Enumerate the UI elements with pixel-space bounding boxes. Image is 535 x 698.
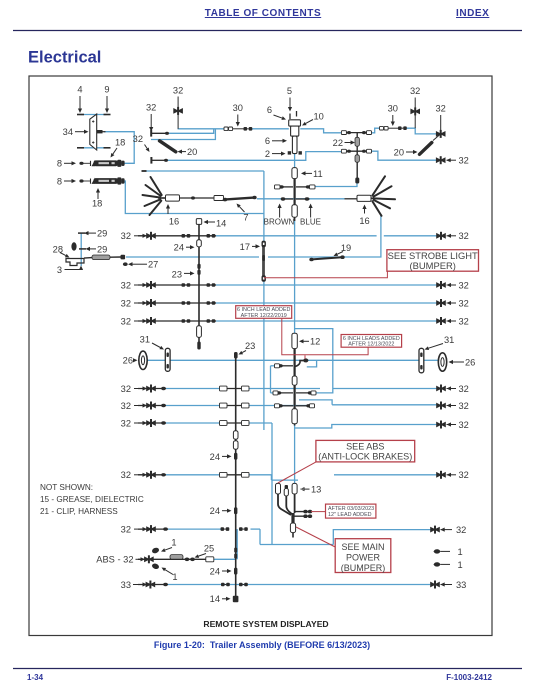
svg-text:REMOTE SYSTEM DISPLAYED: REMOTE SYSTEM DISPLAYED [203,619,328,629]
svg-text:20: 20 [394,147,404,157]
right plug 1 upper [434,549,440,553]
svg-text:13: 13 [311,485,321,495]
svg-text:17: 17 [240,242,250,252]
svg-text:32: 32 [121,470,131,480]
svg-text:33: 33 [456,580,466,590]
red leader 2023 box [311,511,326,513]
svg-text:32: 32 [146,103,156,113]
wire row 423 segments [166,422,220,424]
svg-text:32: 32 [121,280,131,290]
svg-text:AFTER 12/22/2019: AFTER 12/22/2019 [241,313,287,319]
trunk bottom barrel [197,326,202,338]
svg-text:2: 2 [265,149,270,159]
wire bottom link [259,529,261,544]
wire branch 11 to chain 22 [312,184,358,187]
red leader strobe [264,271,388,278]
center trunk upper [294,179,296,205]
svg-text:25: 25 [204,543,214,553]
wire connector 8-2 down to bus [120,181,264,214]
svg-text:27: 27 [148,260,158,270]
svg-text:32: 32 [410,86,420,96]
svg-text:32: 32 [121,316,131,326]
wire row 257 [126,216,381,258]
red note box see strobe light [387,250,479,272]
svg-text:32: 32 [459,280,469,290]
svg-text:9: 9 [104,85,109,95]
svg-text:1: 1 [171,537,176,547]
fan 16 right [372,176,385,195]
wire bus y171 [146,170,264,172]
svg-text:NOT SHOWN:: NOT SHOWN: [40,483,93,492]
diagram frame [29,76,492,636]
wire center harness stubs [270,366,272,393]
svg-text:32: 32 [121,401,131,411]
svg-text:POWER: POWER [346,552,381,562]
svg-text:AFTER 12/13/2022: AFTER 12/13/2022 [348,342,394,348]
svg-text:18: 18 [115,138,125,148]
svg-text:SEE ABS: SEE ABS [346,442,384,452]
wire row 584 [168,584,431,586]
svg-text:10: 10 [314,112,324,122]
svg-text:F-1003-2412: F-1003-2412 [446,673,492,682]
wire row 285 [216,284,438,286]
svg-text:32: 32 [459,231,469,241]
footer rule [13,668,522,670]
svg-text:1-34: 1-34 [27,673,44,682]
wire abs row blue [213,558,235,560]
svg-text:32: 32 [436,104,446,114]
wire to splice X3 [372,151,438,160]
beads on trunk above abs row [234,548,237,553]
ring terminal 26 right [438,353,446,371]
svg-text:SEE MAIN: SEE MAIN [341,542,384,552]
barrel center lower [292,205,297,217]
svg-text:18: 18 [92,199,102,209]
wire main top bus A [178,128,224,130]
red note box see abs [316,440,415,462]
svg-text:12: 12 [310,337,320,347]
wire staircase right of center harness [295,329,333,393]
assembly 13 main power leads [276,483,281,494]
svg-text:12" LEAD ADDED: 12" LEAD ADDED [328,512,372,518]
red note box 6 inch leads added 2022 [341,335,402,348]
wire bus C [151,129,215,140]
svg-text:32: 32 [133,134,143,144]
wire bus D lower [168,152,342,161]
wire row 529 left [168,528,221,530]
svg-text:BROWN: BROWN [264,217,295,226]
svg-text:6: 6 [265,136,270,146]
red stub to harness [304,355,306,359]
wire row 388 segments [166,388,220,390]
row 236 left black [138,235,216,237]
svg-text:20: 20 [187,147,197,157]
12 inch leads [294,511,311,513]
svg-text:29: 29 [97,229,107,239]
center harness 12 [292,333,297,348]
right splice rows upper [436,233,440,239]
svg-text:24: 24 [174,243,184,253]
svg-text:34: 34 [63,127,73,137]
rows 388 405 423 left black parts [146,386,150,392]
svg-text:32: 32 [459,298,469,308]
wire row 474 [166,474,220,476]
svg-text:TABLE OF CONTENTS: TABLE OF CONTENTS [205,8,321,19]
svg-text:(ANTI-LOCK BRAKES): (ANTI-LOCK BRAKES) [318,452,412,462]
wire vertical main left [263,171,265,430]
svg-text:Figure 1-20: Trailer Assembly: Figure 1-20: Trailer Assembly (BEFORE 6/… [154,640,370,650]
svg-text:7: 7 [243,213,248,223]
branch row 187 [280,186,293,188]
svg-text:6: 6 [267,105,272,115]
svg-text:22: 22 [333,138,343,148]
svg-text:1: 1 [458,547,463,557]
svg-text:24: 24 [210,566,220,576]
svg-text:24: 24 [210,506,220,516]
svg-text:26: 26 [465,357,475,367]
trunk lower 236 [235,358,237,600]
svg-text:32: 32 [121,384,131,394]
svg-text:15 - GREASE, DIELECTRIC: 15 - GREASE, DIELECTRIC [40,495,144,504]
cable 19 [312,257,342,259]
svg-text:(BUMPER): (BUMPER) [410,260,456,271]
wire trunk-side drop [236,529,238,559]
svg-text:30: 30 [388,104,398,114]
header rule [13,30,522,32]
wire fan row [257,198,345,200]
wire row 236 [216,235,377,237]
red leader main power [296,527,335,547]
wire row 321 [216,320,438,322]
right plug 1 lower [434,562,440,566]
red note box after 03/03/2023 [326,504,376,518]
wire 28 29 3 assembly [80,233,82,266]
svg-text:24: 24 [210,452,220,462]
svg-text:23: 23 [172,269,182,279]
svg-text:32: 32 [121,231,131,241]
svg-text:16: 16 [359,216,369,226]
red leader abs [278,462,316,483]
wire ring row [147,359,420,361]
cable 20 left [160,141,176,152]
svg-text:26: 26 [123,356,133,366]
svg-text:31: 31 [140,334,150,344]
connector 17 [259,242,268,280]
wire top plate lower [81,147,107,149]
svg-text:14: 14 [210,594,220,604]
svg-text:4: 4 [77,85,82,95]
svg-text:32: 32 [459,470,469,480]
wire row 405 segments [166,405,220,407]
svg-text:Electrical: Electrical [28,49,101,67]
wire plug 2 to barrel 11 [294,154,296,168]
svg-text:32: 32 [459,420,469,430]
svg-text:8: 8 [57,159,62,169]
rows 285 303 321 left black [138,284,216,286]
wire top plate upper [81,114,107,116]
trunk upper left 199 [196,219,201,225]
svg-text:(BUMPER): (BUMPER) [341,563,386,573]
svg-text:5: 5 [287,86,292,96]
svg-text:BLUE: BLUE [300,217,321,226]
chain 22 [356,133,358,181]
arrows BROWN BLUE [279,208,281,218]
svg-text:23: 23 [245,341,255,351]
svg-text:32: 32 [456,525,466,535]
right splice rows mid [436,386,440,392]
main power stem [291,513,294,523]
wire center vertical lower [294,425,296,484]
svg-text:3: 3 [57,265,62,275]
svg-text:14: 14 [216,218,226,228]
svg-text:INDEX: INDEX [456,8,489,19]
wire row 303 [216,302,438,304]
svg-text:32: 32 [459,401,469,411]
svg-text:33: 33 [121,580,131,590]
svg-text:1: 1 [172,572,177,582]
red note box 6 inch lead added 2019 [236,306,292,319]
svg-text:ABS - 32: ABS - 32 [96,555,133,565]
red leader 2019 box [282,318,368,355]
wire bus B [169,129,214,134]
svg-text:16: 16 [169,217,179,227]
splice X3 with label 32 [436,157,440,163]
svg-text:32: 32 [121,525,131,535]
svg-text:30: 30 [233,103,243,113]
wire plate bolt to connector 8-1 [104,132,134,164]
svg-text:32: 32 [121,418,131,428]
red note box see main power [335,539,391,573]
wire vertical center [294,221,296,334]
svg-text:11: 11 [313,169,323,179]
beads 23 on trunk [197,264,200,269]
stud on plate [97,130,103,133]
svg-text:32: 32 [121,298,131,308]
wire long drop left of trunk [271,423,273,545]
barrel 11 [292,168,297,179]
svg-text:32: 32 [459,384,469,394]
fan 16 left [151,177,162,195]
bracket plate 34 [90,114,97,150]
svg-text:29: 29 [97,244,107,254]
tick ends top plate wires [77,114,84,116]
svg-text:31: 31 [444,335,454,345]
svg-text:8: 8 [57,176,62,186]
row 474 black parts [146,472,150,478]
svg-text:32: 32 [173,86,183,96]
svg-text:21 - CLIP, HARNESS: 21 - CLIP, HARNESS [40,507,118,516]
svg-text:32: 32 [459,316,469,326]
cable 7 [224,198,254,200]
trunk barrels near 434 [233,431,238,440]
barrel 24 on trunk [197,240,202,247]
svg-text:1: 1 [458,560,463,570]
svg-text:32: 32 [459,156,469,166]
branch row 199 [281,198,293,200]
row 529 black parts [146,526,150,532]
